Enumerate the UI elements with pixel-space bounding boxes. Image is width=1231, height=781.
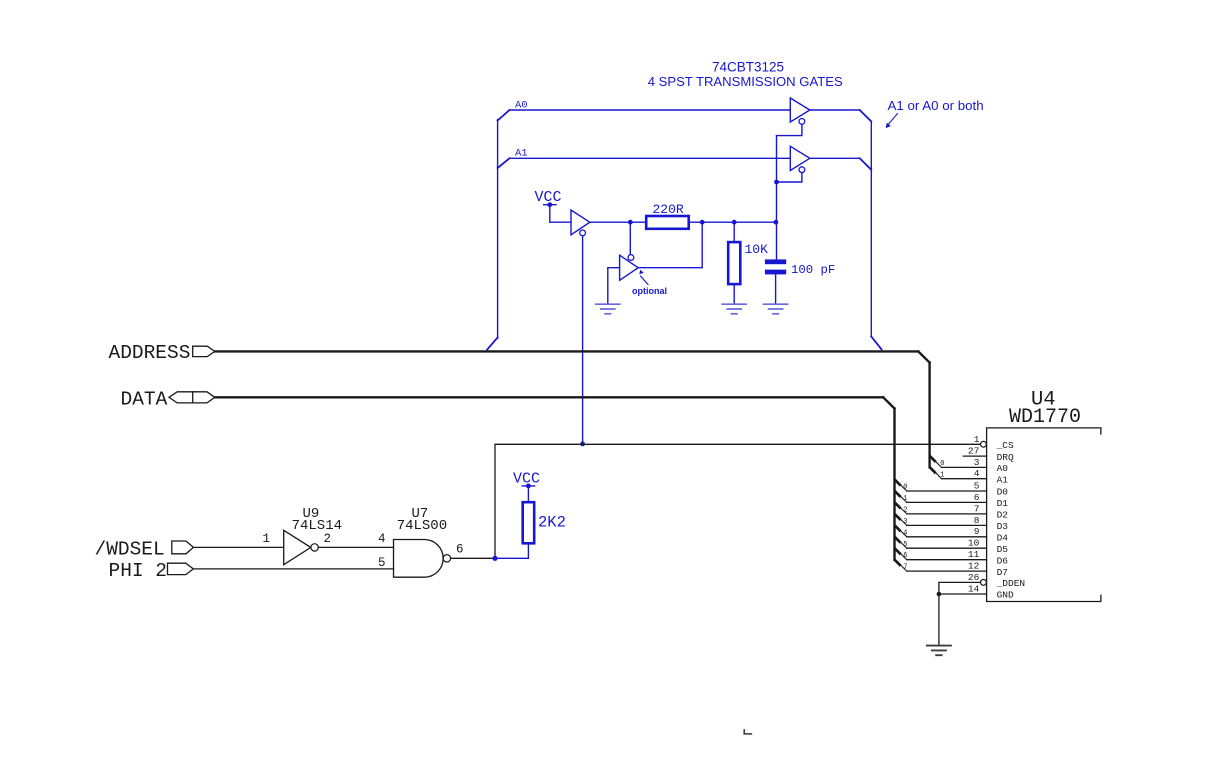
pin 4 A1 bbox=[942, 478, 987, 480]
ground (U4 GND) bbox=[927, 646, 951, 656]
bus rip A0 bbox=[930, 457, 934, 461]
svg-text:220R: 220R bbox=[653, 202, 684, 217]
junction at 10K bbox=[732, 220, 737, 225]
svg-text:7: 7 bbox=[903, 564, 907, 572]
svg-text:14: 14 bbox=[968, 583, 980, 594]
G1 enable bubble bbox=[799, 119, 805, 125]
svg-text:27: 27 bbox=[968, 446, 979, 457]
svg-text:2: 2 bbox=[324, 532, 332, 546]
pin 7 D2 bbox=[907, 513, 987, 515]
svg-text:DRQ: DRQ bbox=[997, 452, 1014, 463]
bus rip D2 bbox=[895, 503, 899, 507]
svg-text:5: 5 bbox=[974, 480, 980, 491]
svg-text:6: 6 bbox=[456, 542, 464, 556]
wire: chamfer to A0 line bbox=[498, 110, 510, 121]
svg-text:D2: D2 bbox=[997, 510, 1009, 521]
wire ADDRESS bus horizontal bbox=[215, 350, 918, 352]
wire ADDRESS bus vertical bbox=[928, 363, 930, 468]
wire: blue block left vertical bbox=[497, 120, 499, 339]
port DATA symbol (bidir) bbox=[169, 392, 215, 403]
svg-text:74CBT3125: 74CBT3125 bbox=[712, 60, 784, 75]
svg-text:4: 4 bbox=[903, 529, 907, 537]
svg-text:2K2: 2K2 bbox=[538, 514, 566, 532]
ground (R2 10K) bbox=[722, 304, 746, 314]
wire /WDSEL to U9 bbox=[193, 546, 283, 548]
wire: bottom-left chamfer to ADDRESS bus bbox=[487, 338, 497, 350]
svg-text:10: 10 bbox=[968, 538, 980, 549]
svg-text:74LS00: 74LS00 bbox=[397, 518, 447, 534]
wire U3 input to ground bbox=[608, 268, 620, 304]
svg-text:A1 or A0 or both: A1 or A0 or both bbox=[888, 98, 984, 113]
svg-text:3: 3 bbox=[974, 457, 980, 468]
svg-text:8: 8 bbox=[974, 515, 980, 526]
wire DATA bus vertical bbox=[893, 409, 895, 560]
svg-text:6: 6 bbox=[974, 492, 980, 503]
svg-text:26: 26 bbox=[968, 572, 980, 583]
wire: bottom-right chamfer to ADDRESS bus bbox=[871, 337, 881, 350]
svg-text:D7: D7 bbox=[997, 567, 1008, 578]
svg-text:4: 4 bbox=[974, 468, 980, 479]
junction on /CS net bbox=[580, 442, 585, 447]
svg-text:D0: D0 bbox=[997, 487, 1009, 498]
bus rip D7 bbox=[895, 560, 899, 564]
svg-text:12: 12 bbox=[968, 561, 980, 572]
annotation arrow optional bbox=[639, 270, 648, 285]
svg-text:1: 1 bbox=[263, 532, 271, 546]
wire GND down bbox=[938, 594, 940, 645]
svg-text:optional: optional bbox=[632, 286, 667, 296]
bus rip A1 bbox=[930, 468, 934, 472]
resistor R2 10K bbox=[733, 222, 735, 242]
pin 26 bubble (_DDEN) bbox=[981, 580, 987, 586]
wire R3 top to VCC bbox=[527, 486, 529, 502]
ground (C1 100pF) bbox=[764, 304, 788, 314]
IC U4 body outline bbox=[987, 428, 1101, 602]
svg-text:0: 0 bbox=[903, 484, 907, 492]
svg-text:2: 2 bbox=[903, 506, 907, 514]
wire DATA bus horizontal bbox=[215, 396, 883, 398]
G2 enable bubble bbox=[799, 167, 805, 173]
junction at feedback bbox=[700, 220, 705, 225]
svg-text:A0: A0 bbox=[997, 463, 1009, 474]
bus rip D1 bbox=[895, 492, 899, 496]
wire: chamfer output A1 to right vertical bbox=[860, 158, 872, 170]
svg-text:100 pF: 100 pF bbox=[791, 263, 835, 277]
pin 8 D3 bbox=[907, 524, 987, 526]
svg-text:D6: D6 bbox=[997, 555, 1009, 566]
resistor R1 220R bbox=[646, 216, 689, 229]
svg-text:11: 11 bbox=[968, 549, 980, 560]
svg-text:D3: D3 bbox=[997, 521, 1009, 532]
node: junction at optional-buffer enable bbox=[628, 220, 633, 225]
wire G2 output bbox=[810, 157, 860, 159]
wire: blue block right vertical bbox=[870, 122, 872, 337]
buffer U3 (optional) bbox=[620, 255, 639, 280]
wire: chamfer output A0 to right vertical bbox=[860, 110, 872, 122]
junction at cap node bbox=[774, 220, 779, 225]
port /WDSEL symbol bbox=[172, 541, 194, 554]
svg-text:6: 6 bbox=[903, 552, 907, 560]
resistor R3 2K2 bbox=[523, 502, 535, 543]
pin 27 DRQ stub bbox=[963, 455, 986, 457]
nand U7 body bbox=[394, 540, 444, 578]
bus rip D5 bbox=[895, 538, 899, 542]
wire A1 input line bbox=[510, 157, 791, 159]
wire U3 enable up bbox=[629, 222, 631, 255]
corner mark bbox=[744, 730, 751, 734]
svg-text:_CS: _CS bbox=[996, 440, 1014, 451]
U7 output bubble bbox=[443, 555, 450, 562]
buffer U2 (VCC driver) bbox=[571, 210, 590, 235]
U3 enable bubble bbox=[628, 255, 634, 261]
svg-text:DATA: DATA bbox=[121, 388, 168, 410]
svg-text:D5: D5 bbox=[997, 544, 1009, 555]
pin 14 GND bbox=[939, 593, 987, 595]
svg-text:GND: GND bbox=[997, 590, 1014, 601]
svg-text:7: 7 bbox=[974, 503, 980, 514]
inverter U9 triangle bbox=[284, 530, 311, 564]
wire R1 right to RC node bbox=[689, 221, 776, 223]
transmission gate G2 (A1) bbox=[790, 146, 810, 170]
svg-text:1: 1 bbox=[903, 495, 907, 503]
junction enable gates bbox=[774, 180, 779, 185]
junction /CS pullup bbox=[492, 556, 497, 561]
svg-text:4 SPST TRANSMISSION GATES: 4 SPST TRANSMISSION GATES bbox=[648, 74, 843, 89]
pin 12 D7 bbox=[907, 570, 987, 572]
wire G2 enable bbox=[777, 173, 802, 182]
pin 6 D1 bbox=[907, 501, 987, 503]
wire PHI 2 to U7 pin5 bbox=[193, 568, 393, 570]
junction _DDEN/GND bbox=[937, 592, 942, 597]
bus rip D6 bbox=[895, 549, 899, 553]
pin 11 D6 bbox=[907, 559, 987, 561]
svg-text:D4: D4 bbox=[997, 533, 1009, 544]
transmission gate G1 (A0) bbox=[790, 98, 810, 122]
svg-text:5: 5 bbox=[378, 556, 386, 570]
wire U9 out to U7 pin4 bbox=[318, 546, 393, 548]
pin 1 bubble (_CS) bbox=[981, 441, 987, 447]
wire G1 enable bbox=[777, 124, 802, 135]
svg-text:3: 3 bbox=[903, 518, 907, 526]
wire G1 output bbox=[810, 109, 860, 111]
svg-text:WD1770: WD1770 bbox=[1009, 406, 1081, 429]
wire U2 enable down to /CS net bbox=[582, 236, 584, 444]
svg-text:A1: A1 bbox=[997, 474, 1009, 485]
wire VCC to buffer input bbox=[550, 205, 571, 223]
wire U7 out to junction bbox=[451, 557, 495, 559]
port ADDRESS symbol bbox=[193, 346, 215, 356]
wire ADDRESS bus corner bbox=[918, 351, 929, 362]
U9 output bubble bbox=[311, 544, 318, 551]
wire DATA bus corner bbox=[883, 397, 894, 408]
U2 enable bubble bbox=[580, 230, 586, 236]
wire _DDEN to GND bbox=[939, 582, 981, 594]
wire: chamfer to A1 line bbox=[498, 158, 510, 168]
svg-text:4: 4 bbox=[378, 532, 386, 546]
annotation arrow to corner bbox=[886, 114, 898, 129]
svg-text:_DDEN: _DDEN bbox=[996, 578, 1026, 589]
wire /CS net (pin1 to NAND) bbox=[495, 444, 981, 558]
wire A0 input line bbox=[510, 109, 791, 111]
wire U2 output bbox=[590, 221, 646, 223]
capacitor C1 100 pF bbox=[765, 259, 786, 264]
svg-text:10K: 10K bbox=[745, 242, 769, 257]
enable net vertical (gates to RC) bbox=[776, 136, 778, 260]
bus rip D4 bbox=[895, 526, 899, 530]
pin 5 D0 bbox=[907, 490, 987, 492]
ground (U3 input) bbox=[596, 304, 620, 314]
bus rip D3 bbox=[895, 515, 899, 519]
pin 10 D5 bbox=[907, 547, 987, 549]
svg-text:9: 9 bbox=[974, 526, 980, 537]
svg-text:74LS14: 74LS14 bbox=[292, 518, 342, 534]
svg-text:1: 1 bbox=[974, 434, 980, 445]
svg-text:PHI 2: PHI 2 bbox=[109, 560, 168, 582]
bus rip D0 bbox=[895, 480, 899, 484]
svg-text:D1: D1 bbox=[997, 498, 1009, 509]
pin 9 D4 bbox=[907, 536, 987, 538]
wire U3 output feedback bbox=[638, 222, 702, 268]
pin 3 A0 bbox=[942, 466, 987, 468]
port PHI 2 symbol bbox=[168, 563, 194, 574]
svg-text:ADDRESS: ADDRESS bbox=[109, 342, 191, 364]
svg-text:/WDSEL: /WDSEL bbox=[95, 539, 165, 561]
wire junction to R3 bbox=[495, 543, 528, 558]
